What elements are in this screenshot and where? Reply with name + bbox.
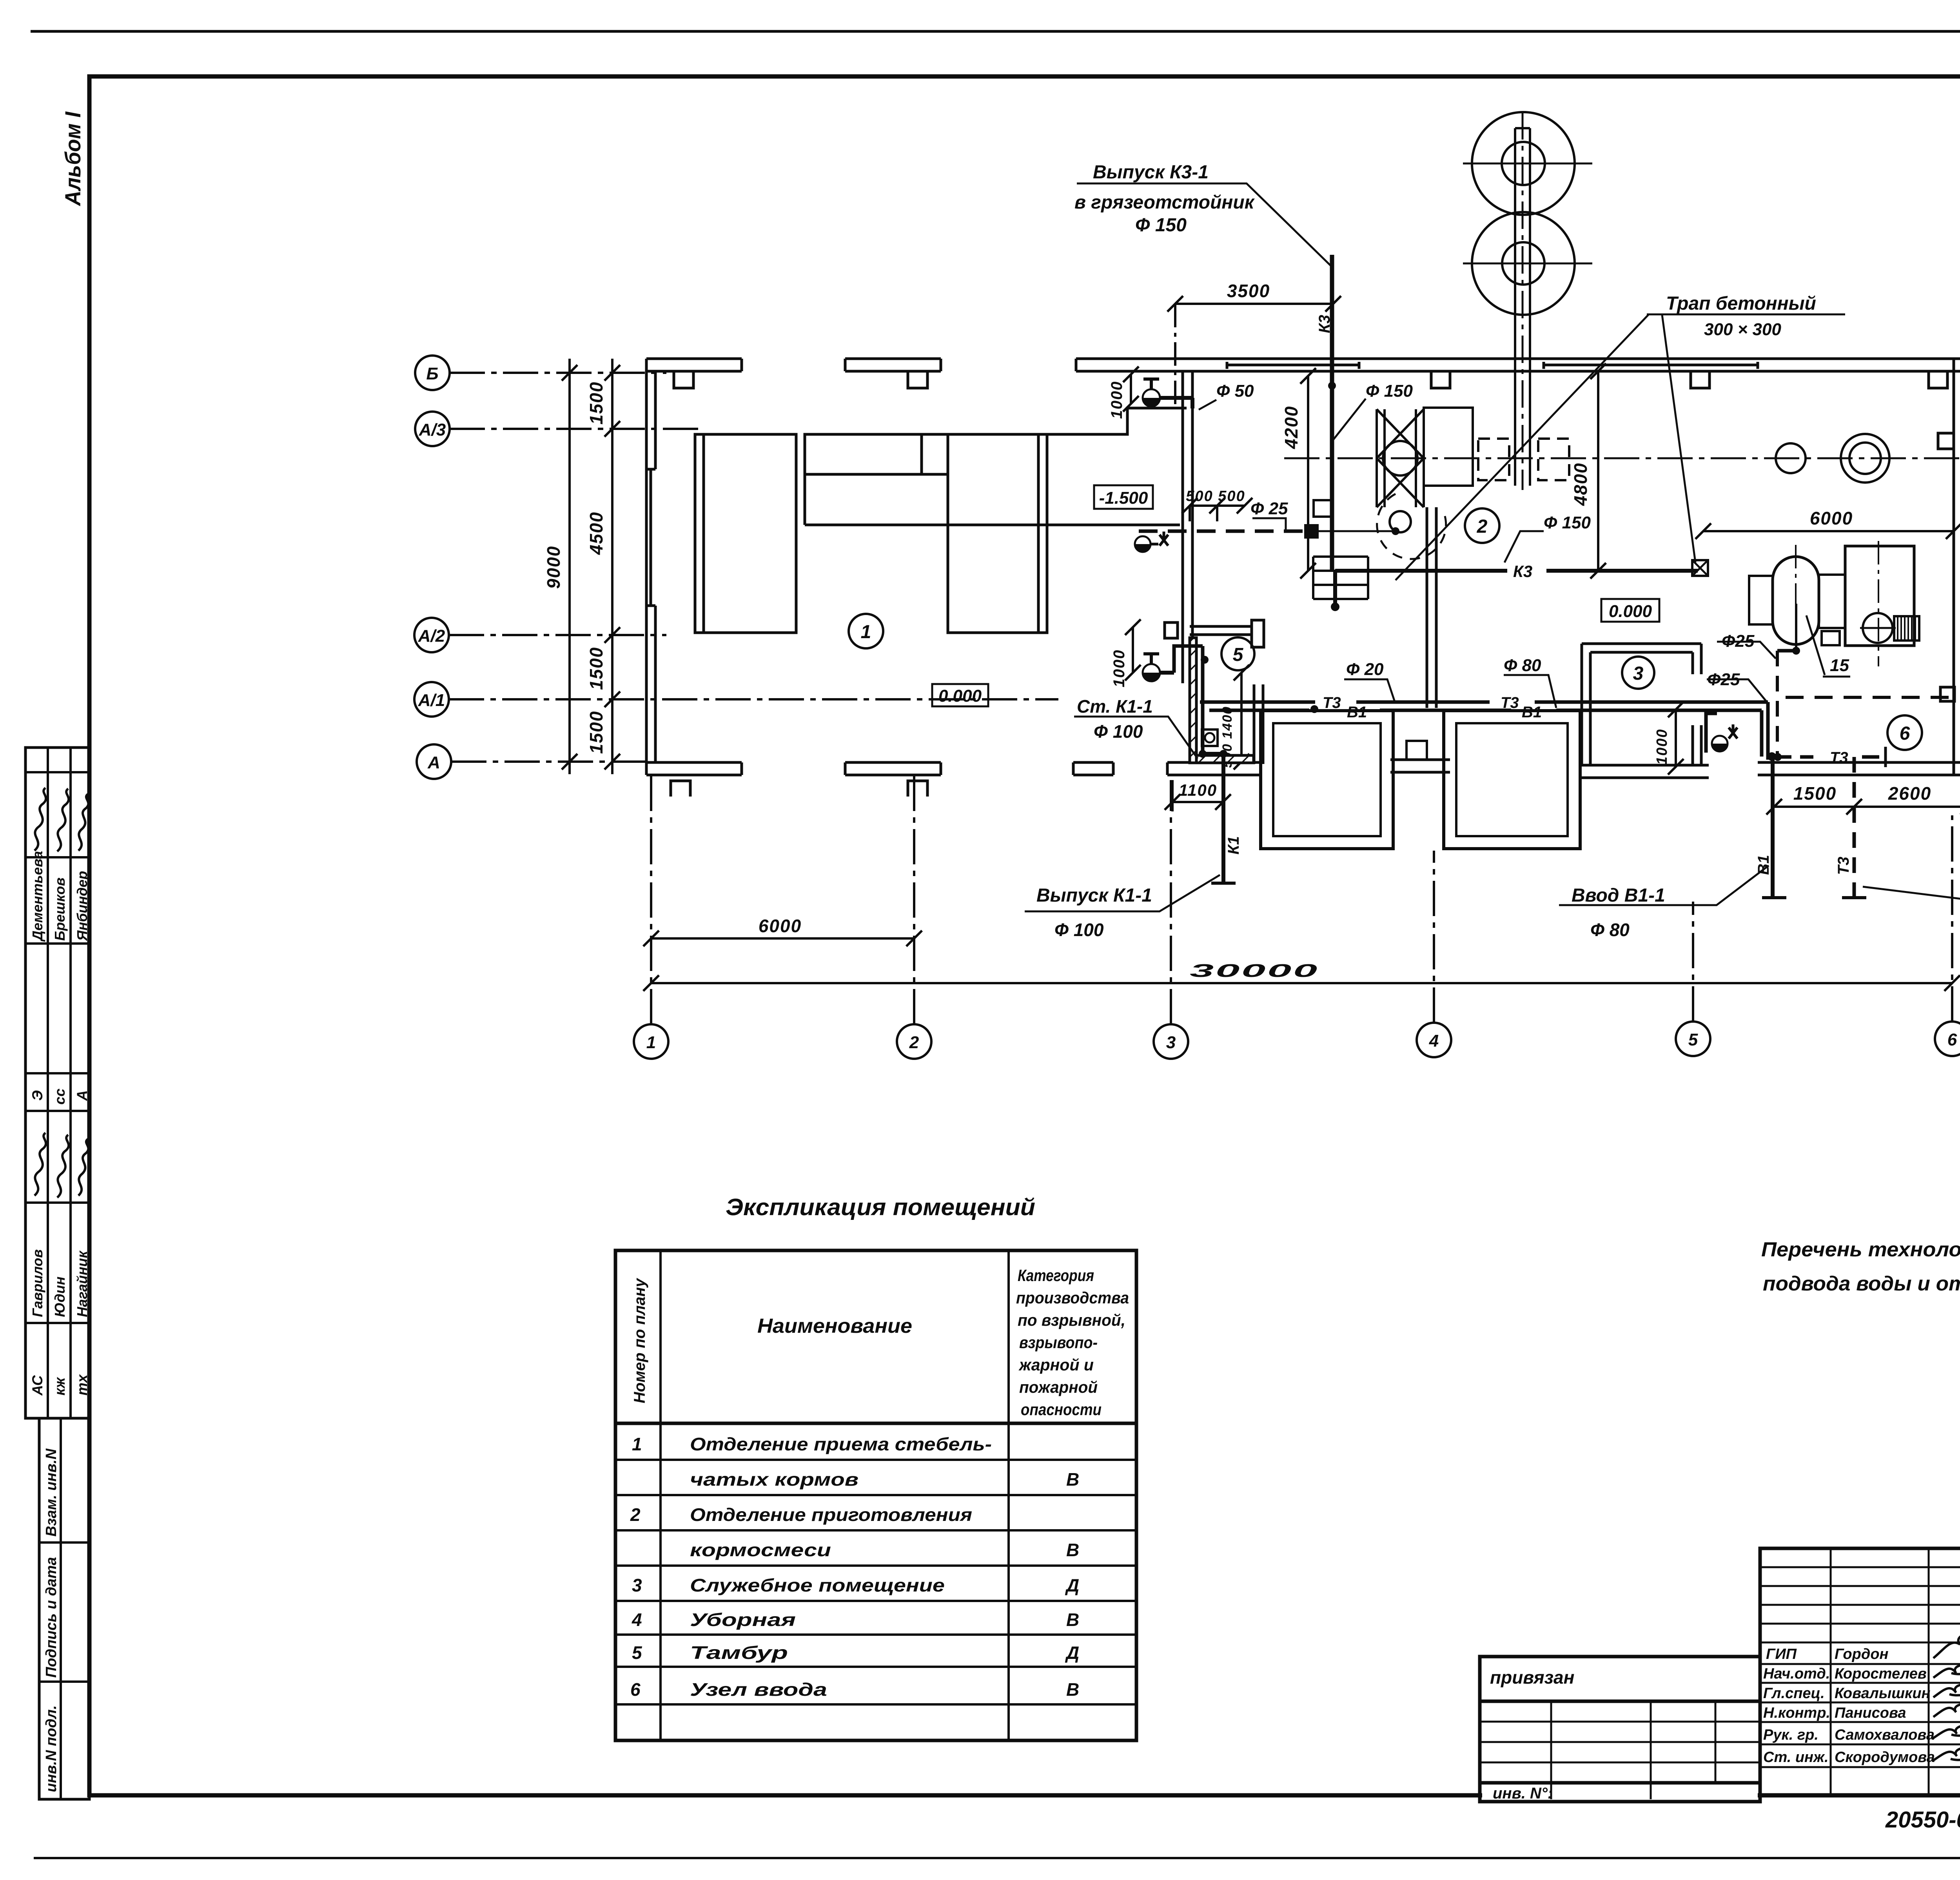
leader iz kanala [1863,887,1960,904]
machine coil [1894,616,1919,641]
mixer body rect [1424,408,1473,486]
bottom axis circle 2 [897,1024,931,1059]
small circle mixer lower [1390,511,1411,532]
feed tank square left [1261,711,1393,849]
bottom axis line 6 [1951,815,1953,1022]
trap stairs [1313,557,1368,599]
axis circle A [417,744,451,779]
leader vvod V1-1 [1559,866,1769,905]
right wall [1953,359,1955,775]
axis line A/1 [449,698,1058,700]
dim ticks left chain [562,365,620,769]
leader F25 left bracket [1252,518,1286,530]
receiving tank circle upper [1472,112,1575,215]
bottom wall segment 7 right [1758,761,1960,764]
B1 pipe horizontal [1209,709,1762,712]
svg-text:Гордон: Гордон [1835,1646,1889,1662]
bottom wall segment 5 between tanks [1390,759,1450,761]
bottom axis line 4 [1433,851,1435,1023]
washbasin tambour [1202,729,1218,746]
bottom wall segment 6 under room3 [1582,764,1709,767]
svg-text:Рук. гр.: Рук. гр. [1763,1727,1818,1743]
dim 500 1400 tambour [1240,673,1243,762]
column bracket bottom 2 [908,781,927,797]
room 3 walls [1581,644,1583,765]
K3 main line left part [1335,569,1507,573]
conveyor vertical [1514,128,1516,486]
feed tank square right [1444,711,1580,849]
bottom axis line 5 [1692,902,1694,1022]
K3 main line right part [1546,569,1698,573]
F25 dashed line left [1139,530,1304,533]
dim 1000 top left [1130,374,1132,404]
outer trim line top [31,30,1960,33]
outer trim line bottom [34,1857,1960,1859]
dim line 30000 [651,982,1952,984]
svg-text:ГИП: ГИП [1766,1646,1797,1662]
equipment rect R1 [695,434,796,633]
machine circle [1863,613,1893,643]
dim line 4200 [1307,376,1309,571]
K3 riser wall dot [1328,382,1336,390]
bottom axis circle 4 [1417,1023,1451,1057]
boiler feed line [1795,604,1797,651]
equipment note [1761,1238,1960,1295]
leader F25 right2 [1707,679,1766,701]
top wall segment 3 [1076,357,1960,360]
axis circle A/3 [415,412,450,446]
leader F80 [1504,675,1556,708]
T3 dashed from boiler [1777,649,1796,653]
connector between tanks [1406,741,1427,760]
leader vypusk K1-1 [1025,875,1220,911]
riser pipes tambour [1174,646,1203,755]
column bracket top 2 [908,371,927,388]
K1 outlet pipe [1203,754,1223,883]
small rect mixer lower [1314,500,1332,517]
svg-text:инв. N°:: инв. N°: [1493,1785,1553,1802]
privyazan block [1480,1657,1760,1802]
top wall segment 1 [646,357,742,360]
axis circle A/1 [414,682,449,717]
boiler capsule [1773,557,1819,644]
small rect under boiler [1822,631,1840,645]
dim 1000 room3 [1675,710,1677,767]
tambour top wall [1165,622,1178,638]
svg-text:привязан: привязан [1490,1667,1574,1688]
axis line B [450,372,666,374]
dim line 6000 right [1703,530,1954,532]
window strip 1 in top wall [1227,364,1359,367]
K3 drain box [1692,560,1708,576]
wall bracket right mid [1938,433,1954,449]
tambour hatched wall bottom [1196,755,1254,763]
column bracket top 4 [1691,371,1710,388]
stamp texts [1490,1580,1960,1834]
bottom axis circle 1 [634,1024,668,1059]
dim line 9000 [568,359,571,774]
T3 pipe horizontal [1200,700,1768,704]
leader vypusk K3-1 [1077,183,1332,267]
K1 end tick [1211,882,1236,885]
signature squiggles [34,788,88,1198]
column bracket bottom 1 [671,781,690,797]
axis line A/2 [449,634,666,636]
leader F150 [1333,399,1366,440]
axis line A [451,760,651,763]
bottom axis circle 3 [1154,1024,1188,1059]
elevation boxes [932,485,1659,706]
bottom axis line 3 [1170,780,1172,1024]
column bracket top 5 [1929,371,1947,388]
wall bracket right low [1940,687,1955,701]
partition between rooms 2 and tanks [1426,507,1428,708]
stamp signatures squiggles [1933,1625,1960,1768]
bottom wall segment 2 [845,761,941,764]
bottom axis circle 6 [1935,1022,1960,1056]
tambour right wall [1253,684,1256,764]
svg-text:Ст. инж.: Ст. инж. [1763,1749,1829,1766]
dim 1500 2600 [1774,806,1960,808]
axis labels [418,364,1957,1052]
tambour hatched wall vertical [1190,638,1196,763]
bottom axis line 1 [650,775,652,1024]
stair riser wall [1181,371,1184,683]
F25 stub right of box [1319,530,1396,532]
dim line 3500 top [1175,303,1333,305]
T3/B1 corner turn down [1762,702,1768,760]
T3 branch in room6 [1774,755,1886,759]
equipment rect R3 [948,434,1047,633]
boiler connector rect [1819,575,1845,628]
K3 elbow down [1333,571,1337,604]
dashed coupling square 2 [1538,439,1569,480]
dashed coupling square 1 [1478,439,1509,480]
strainer symbol left [1135,536,1151,552]
svg-text:Коростелев: Коростелев [1835,1666,1927,1682]
shaft double circle [1841,434,1889,483]
axis line A/3 [450,428,702,430]
leader F50 [1199,400,1216,410]
dim 1000 tambour [1132,627,1134,673]
dim line 6000 bottom [651,937,914,940]
faucet room3 [1712,736,1728,751]
receiving tank circle lower [1472,212,1575,315]
dim 1100 [1172,801,1223,803]
equipment rect R2 [805,434,922,474]
column bracket top 3 [1431,371,1450,388]
svg-text:Н.контр.: Н.контр. [1763,1705,1830,1721]
machine rect [1845,546,1914,646]
room 6 dashed boundary [1786,696,1953,699]
column bracket top 1 [674,371,693,388]
svg-text:Ковалышкин: Ковалышкин [1835,1685,1931,1702]
side stamp upper table [25,748,89,1418]
T3 stub down dashed [1853,757,1856,898]
machine centerline [1878,541,1879,666]
pit -1.500 outline [805,408,1187,434]
dashed arc near mixer [1377,494,1446,559]
dimension texts [543,281,1931,981]
leader F150 k3 [1504,531,1544,563]
B1 stub down [1771,757,1775,898]
svg-text:Скородумова: Скородумова [1835,1749,1935,1766]
window strip 2 in top wall [1544,364,1758,367]
left wall window [650,469,652,606]
K3 riser vertical [1330,255,1334,571]
boiler centerline [1795,545,1797,651]
F25 black box [1304,524,1319,539]
dim line 4800 [1597,371,1599,571]
bottom axis line 2 [913,775,915,1024]
side stamp lower table [39,1418,89,1799]
bottom wall segment 1 [646,761,742,764]
leader F20 [1344,679,1395,702]
faucet tambour [1143,664,1160,681]
top wall segment 2 [845,357,941,360]
svg-text:Гл.спец.: Гл.спец. [1763,1685,1825,1702]
svg-text:Панисова: Панисова [1835,1705,1906,1721]
dim line 1500-4500-1500-1500 [611,359,613,774]
svg-text:20550-01: 20550-01 [1885,1807,1960,1833]
shaft small circle [1776,443,1806,473]
svg-text:Самохвалова: Самохвалова [1835,1727,1935,1743]
boiler left rect [1749,576,1773,624]
mixer X frame [1377,409,1424,507]
axis extension for 3500 [1174,304,1176,408]
left wall [645,359,648,775]
axis circle A/2 [414,618,449,652]
F50 pipe top [1160,398,1192,408]
bottom wall segment 4 tambour [1167,761,1261,764]
bottom axis circle 5 [1676,1022,1710,1056]
conveyor axis horizontal [1284,457,1960,459]
leader 15 [1806,615,1850,677]
axis circle B [415,356,450,390]
svg-text:Нач.отд.: Нач.отд. [1763,1666,1830,1682]
leader st K1-1 [1074,717,1198,759]
leader trap betonny [1396,314,1845,580]
bottom wall segment 3 [1073,761,1113,764]
faucet top left [1143,389,1160,406]
left signatures table [1760,1548,1960,1795]
leader F25 right1 [1717,642,1776,659]
dim 500 500 [1190,504,1245,507]
